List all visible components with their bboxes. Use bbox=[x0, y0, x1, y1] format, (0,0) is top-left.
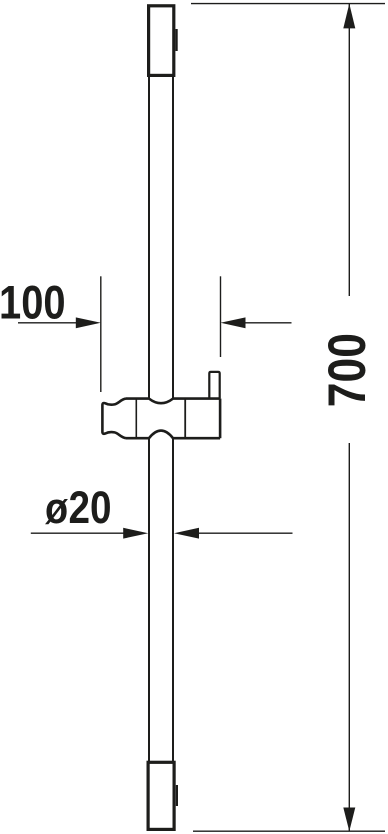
dimension line 700 lower segment bbox=[348, 443, 350, 831]
arrowhead down (700 dim) bbox=[343, 808, 355, 832]
holder swivel knob tab bbox=[209, 372, 219, 399]
extension line bottom (700 dim) bbox=[193, 830, 385, 832]
arrowhead left-pointing (100 dim) bbox=[221, 317, 246, 328]
svg-text:100: 100 bbox=[0, 276, 66, 329]
arrowhead right-pointing (diameter dim) bbox=[123, 528, 148, 539]
rail tube right edge upper bbox=[172, 77, 174, 398]
bottom end cap bbox=[148, 762, 174, 829]
holder bottom edge bbox=[126, 431, 220, 439]
holder top edge bbox=[126, 399, 220, 404]
arrowhead up (700 dim) bbox=[343, 4, 355, 29]
rail tube left edge lower bbox=[148, 438, 150, 761]
extension line right (100 dim) bbox=[220, 276, 222, 357]
svg-text:ø: ø bbox=[45, 483, 68, 532]
holder divider line 2 bbox=[184, 399, 186, 439]
svg-text:20: 20 bbox=[69, 482, 112, 532]
arrowhead left-pointing (diameter dim) bbox=[174, 528, 199, 539]
dimension leader left (100 dim) bbox=[18, 322, 77, 324]
top end cap bbox=[149, 6, 174, 76]
rail tube left edge upper bbox=[148, 77, 150, 398]
arrowhead right-pointing (100 dim) bbox=[76, 317, 101, 328]
holder divider line 1 bbox=[135, 399, 137, 439]
bottom cap edge nub bbox=[176, 785, 178, 806]
leader line left (diameter dim) bbox=[31, 532, 124, 534]
holder right edge bbox=[219, 399, 222, 439]
holder left grip knob contour bbox=[102, 399, 126, 439]
svg-text:700: 700 bbox=[318, 333, 376, 407]
dimension line 700 upper segment bbox=[348, 4, 350, 296]
dimension leader right (100 dim) bbox=[244, 322, 292, 324]
rail tube right edge lower bbox=[172, 438, 174, 761]
leader line right (diameter dim) bbox=[199, 532, 293, 534]
extension line left (100 dim) bbox=[100, 276, 102, 392]
extension line top (700 dim) bbox=[191, 3, 385, 5]
slider holder body fill bbox=[102, 372, 220, 438]
top cap edge nub bbox=[176, 29, 178, 51]
